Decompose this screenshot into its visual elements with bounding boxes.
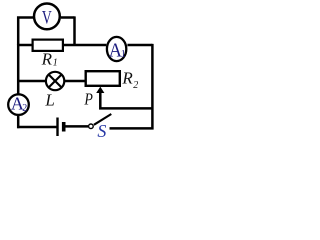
svg-text:R: R	[41, 50, 53, 69]
svg-text:V: V	[42, 6, 52, 28]
svg-text:R: R	[121, 69, 133, 88]
svg-text:1: 1	[53, 57, 58, 68]
svg-text:P: P	[84, 90, 94, 109]
svg-text:L: L	[44, 91, 54, 110]
svg-text:S: S	[97, 121, 106, 141]
svg-text:1: 1	[121, 49, 126, 60]
svg-text:2: 2	[22, 103, 27, 114]
svg-text:2: 2	[133, 80, 138, 91]
